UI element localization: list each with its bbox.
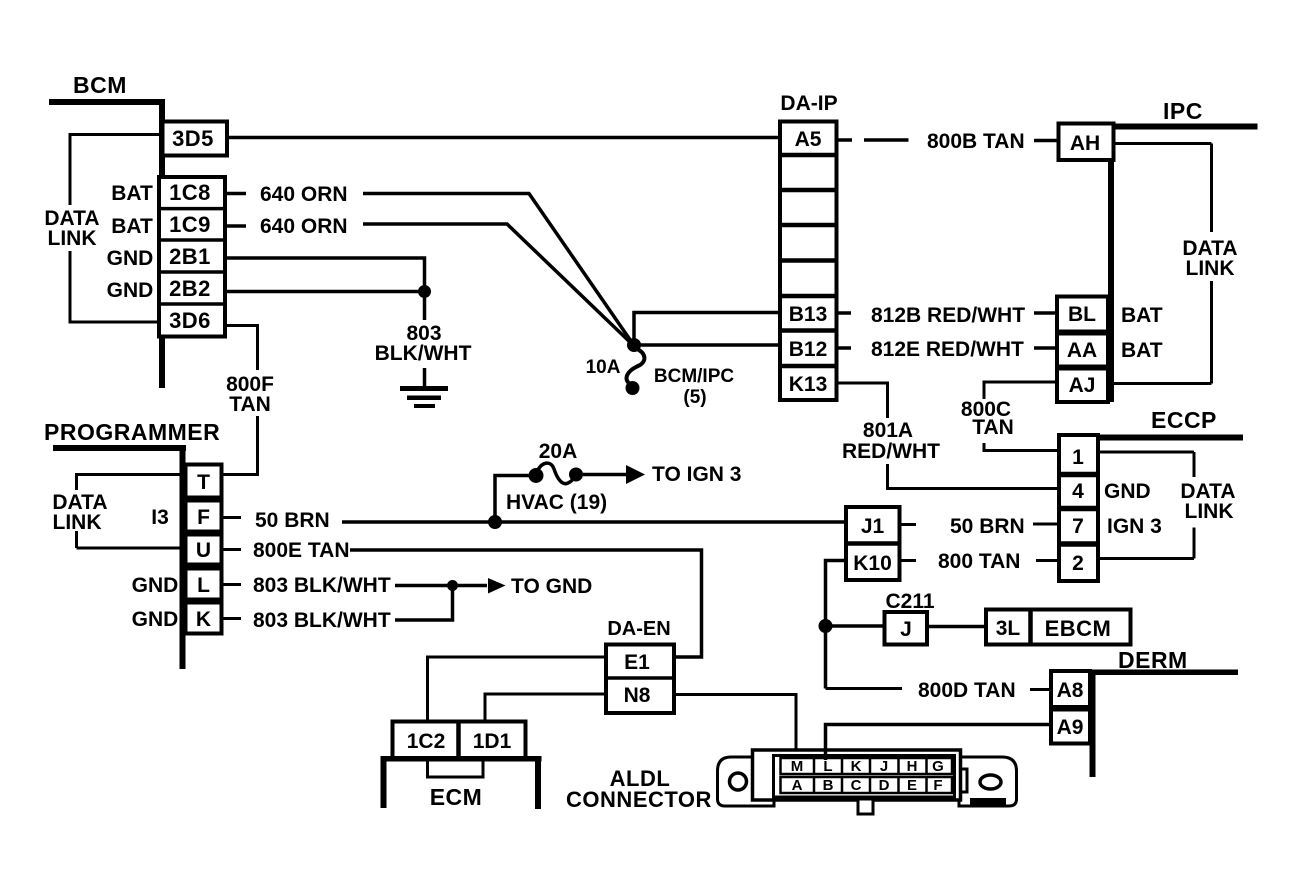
svg-text:2: 2: [1072, 552, 1084, 575]
junction: HVAC tap: [488, 515, 502, 529]
svg-text:G: G: [932, 758, 944, 775]
svg-text:A: A: [792, 777, 803, 794]
svg-text:A8: A8: [1057, 679, 1084, 702]
ALDL right ear: [959, 757, 1017, 806]
svg-text:640 ORN: 640 ORN: [260, 215, 348, 238]
ALDL body: [753, 750, 961, 800]
connector ECCP outline: [1059, 435, 1098, 581]
PROGRAMMER top rail: [53, 445, 186, 451]
wire: 1C8 stub: [227, 192, 246, 196]
connector C211 pin J: [885, 612, 928, 645]
svg-text:LINK: LINK: [53, 511, 102, 534]
svg-text:B: B: [823, 777, 834, 794]
wire: 2B2 to ground drop: [225, 290, 425, 294]
svg-text:ECM: ECM: [430, 784, 483, 810]
svg-text:TAN: TAN: [229, 393, 271, 416]
svg-text:J: J: [880, 758, 888, 775]
wire: A9 to ALDL pin L: [826, 725, 1052, 761]
svg-text:1C9: 1C9: [169, 212, 211, 237]
svg-text:BCM/IPC: BCM/IPC: [654, 366, 735, 387]
ALDL shade block: [970, 798, 1006, 807]
wire: dash to BL: [1034, 311, 1057, 315]
svg-text:1C8: 1C8: [169, 180, 211, 205]
svg-text:LINK: LINK: [1185, 500, 1234, 523]
svg-text:50 BRN: 50 BRN: [950, 515, 1025, 538]
svg-text:GND: GND: [1104, 480, 1151, 503]
wire: L stub: [221, 583, 241, 586]
svg-text:GND: GND: [107, 279, 154, 302]
svg-text:D: D: [879, 777, 890, 794]
svg-text:B13: B13: [789, 303, 828, 326]
wire: K10 stub: [900, 559, 917, 562]
wire: 800D TAN run: [826, 687, 903, 690]
DERM top rail: [1091, 670, 1239, 676]
wire: programmer data link bracket bottom: [77, 547, 187, 550]
pin 3D5 (BCM): [163, 122, 228, 156]
wire: splice to B12: [634, 343, 780, 347]
ground: [400, 386, 448, 391]
ALDL top pin row: [781, 758, 953, 774]
svg-text:C: C: [851, 777, 862, 794]
pin T: [186, 465, 222, 498]
ALDL left latch: [762, 769, 775, 792]
svg-text:DA-EN: DA-EN: [607, 618, 670, 640]
pin 7 (ECCP): [1059, 541, 1098, 547]
ECCP top rail: [1064, 435, 1243, 441]
connector J1/K10 outline: [846, 507, 900, 580]
wire: 640 ORN from 1C9 to splice: [363, 224, 633, 345]
svg-text:(5): (5): [683, 387, 706, 408]
connector ECM pins outline: [393, 722, 526, 759]
cell divider: [780, 258, 837, 263]
svg-text:E: E: [907, 777, 917, 794]
wire: ECCP data link bracket bottom: [1098, 557, 1194, 560]
wire: K stub: [221, 617, 241, 620]
svg-text:K10: K10: [853, 552, 892, 575]
svg-text:AA: AA: [1067, 339, 1097, 362]
connector DA-IP outline: [780, 122, 837, 401]
wire: BCM data link vertical (upper): [69, 133, 72, 205]
svg-text:640 ORN: 640 ORN: [260, 183, 348, 206]
svg-text:LINK: LINK: [48, 227, 97, 250]
ECM bracket: [381, 756, 542, 762]
fuse 20A HVAC: [529, 468, 544, 483]
svg-text:BLK/WHT: BLK/WHT: [375, 342, 472, 365]
pin A9 (DERM): [1051, 710, 1090, 744]
svg-text:803 BLK/WHT: 803 BLK/WHT: [253, 609, 391, 632]
wire: J1 stub: [900, 523, 917, 526]
svg-text:C211: C211: [885, 590, 934, 613]
pin J1: [846, 541, 900, 546]
svg-text:7: 7: [1072, 515, 1084, 538]
svg-text:4: 4: [1072, 480, 1084, 503]
wire: AJ to ECCP 1 (800C TAN upper): [984, 382, 1057, 399]
wire: L to gnd arrow: [395, 584, 453, 588]
svg-text:J: J: [900, 618, 912, 641]
svg-text:2B1: 2B1: [169, 244, 211, 269]
svg-text:A5: A5: [795, 128, 822, 151]
svg-text:AH: AH: [1070, 132, 1100, 155]
svg-text:1C2: 1C2: [407, 730, 446, 753]
svg-text:E1: E1: [624, 651, 650, 674]
wire: 800C TAN lower: [984, 443, 1059, 451]
pin BL (IPC): [1057, 297, 1108, 332]
svg-text:10A: 10A: [586, 357, 621, 378]
svg-text:20A: 20A: [539, 440, 578, 463]
pin 1 (ECCP): [1059, 472, 1098, 478]
svg-text:K13: K13: [789, 373, 828, 396]
wire: BCM data link vertical (lower): [69, 251, 72, 324]
wire: K to splice: [395, 586, 453, 621]
PROGRAMMER vertical rail: [180, 445, 186, 669]
svg-text:3D6: 3D6: [169, 308, 211, 333]
BCM top rail: [49, 99, 165, 105]
pin 1C8: [159, 207, 225, 211]
BCM vertical rail: [159, 99, 165, 388]
svg-text:800 TAN: 800 TAN: [938, 550, 1020, 573]
wire: 3D6 to programmer T (800F TAN): [225, 326, 258, 371]
svg-text:J1: J1: [861, 515, 885, 538]
svg-text:800E TAN: 800E TAN: [253, 539, 349, 562]
svg-text:TAN: TAN: [972, 416, 1014, 439]
pin U: [186, 535, 222, 565]
wire: splice to B13: [634, 313, 780, 347]
svg-text:BL: BL: [1068, 303, 1096, 326]
svg-text:ECCP: ECCP: [1151, 407, 1217, 433]
svg-text:800D TAN: 800D TAN: [918, 679, 1016, 702]
wire: IPC data link bracket bottom: [1114, 382, 1212, 385]
svg-text:HVAC (19): HVAC (19): [506, 491, 607, 514]
svg-text:K: K: [851, 758, 862, 775]
svg-text:812B RED/WHT: 812B RED/WHT: [871, 304, 1025, 327]
svg-text:TO GND: TO GND: [511, 575, 592, 598]
wire: E1 to 1C2: [428, 657, 607, 724]
wire: ECCP data link bracket top: [1098, 451, 1194, 454]
svg-text:I3: I3: [151, 506, 169, 529]
svg-text:50 BRN: 50 BRN: [255, 509, 330, 532]
connector DA-EN outline: [606, 645, 674, 714]
pin AJ (IPC): [1057, 369, 1108, 403]
svg-text:DERM: DERM: [1118, 647, 1188, 673]
wire: dash to A8: [1030, 688, 1051, 691]
wire: dash to AH: [1034, 139, 1058, 143]
pin B12: [780, 364, 837, 369]
wire: fuse to IGN3 arrow: [583, 473, 628, 477]
fuse 10A BCM/IPC: [627, 348, 645, 384]
ALDL left ear: [718, 757, 775, 806]
svg-text:RED/WHT: RED/WHT: [842, 440, 940, 463]
svg-text:IPC: IPC: [1163, 98, 1203, 124]
svg-text:F: F: [933, 777, 942, 794]
pin K: [186, 603, 222, 634]
svg-text:AJ: AJ: [1069, 374, 1096, 397]
junction: fuse splice: [627, 338, 641, 352]
wire: F stub: [221, 516, 241, 519]
pin 1C2: [456, 722, 461, 759]
ALDL inner shell: [774, 756, 955, 798]
svg-text:BAT: BAT: [1121, 304, 1163, 327]
wire: IPC data link vertical upper: [1210, 144, 1213, 233]
wire: 1C9 stub: [227, 224, 246, 228]
pin A8 (DERM): [1051, 671, 1090, 707]
wire: ECCP data link vertical lower: [1193, 528, 1196, 559]
cell divider: [780, 223, 837, 228]
svg-text:2B2: 2B2: [169, 276, 211, 301]
wire: drop to ground (upper): [423, 292, 427, 321]
IPC vertical rail: [1108, 124, 1114, 403]
junction: ground splice: [418, 285, 431, 298]
wire: IPC data link vertical lower: [1210, 281, 1213, 384]
svg-text:L: L: [197, 574, 210, 597]
svg-text:1: 1: [1072, 446, 1084, 469]
wire: drop to ground (lower): [423, 368, 427, 387]
wire: K10 to C211 drop: [826, 561, 847, 689]
DERM vertical rail: [1090, 670, 1096, 778]
pin L: [186, 569, 222, 600]
arrow TO GND: [488, 578, 506, 594]
wire: 800E TAN run to DA-EN E1: [350, 550, 702, 657]
svg-text:GND: GND: [132, 574, 179, 597]
pin AH (IPC): [1059, 124, 1114, 161]
svg-text:BCM: BCM: [73, 72, 127, 98]
svg-text:N8: N8: [624, 684, 651, 707]
ALDL right latch: [954, 769, 967, 792]
svg-text:GND: GND: [132, 608, 179, 631]
cell divider: [780, 188, 837, 193]
wire: dash to pin 7: [1033, 523, 1059, 526]
svg-text:T: T: [197, 471, 210, 494]
svg-text:B12: B12: [789, 338, 828, 361]
cell divider: [780, 294, 837, 299]
wire: ECCP data link vertical upper: [1193, 452, 1196, 477]
svg-text:IGN 3: IGN 3: [1107, 515, 1162, 538]
junction: C211 tap: [819, 619, 833, 633]
svg-text:GND: GND: [107, 247, 154, 270]
svg-text:TO IGN 3: TO IGN 3: [652, 463, 741, 486]
pin 2B1: [159, 270, 225, 274]
wire: IPC data link bracket top: [1114, 142, 1212, 145]
wire: A5 stub: [837, 138, 853, 142]
wire: K13 to ECCP 4 (801A RED/WHT): [837, 383, 888, 418]
junction: 803 splice: [447, 580, 458, 591]
wire: 1C2-1D1 loop: [428, 758, 484, 777]
pin 4 (ECCP): [1059, 506, 1098, 512]
svg-text:A9: A9: [1057, 716, 1084, 739]
pin F: [186, 501, 222, 532]
wire: data-link to 3D6: [70, 321, 163, 324]
pin 1C9: [159, 238, 225, 242]
svg-text:BAT: BAT: [111, 215, 153, 238]
svg-text:812E RED/WHT: 812E RED/WHT: [871, 338, 1024, 361]
wire: programmer data link bracket top: [77, 473, 187, 476]
wire: tap to C211 J: [826, 624, 886, 628]
svg-text:801A: 801A: [863, 419, 913, 442]
svg-text:F: F: [197, 506, 210, 529]
svg-text:3L: 3L: [996, 617, 1021, 640]
pin 3L: [1028, 610, 1033, 645]
wire: N8 to 1D1: [485, 694, 606, 724]
svg-text:803 BLK/WHT: 803 BLK/WHT: [253, 574, 391, 597]
IPC top rail: [1111, 124, 1258, 130]
svg-text:K: K: [196, 608, 211, 631]
svg-text:DA-IP: DA-IP: [780, 92, 837, 115]
wire: 801A lower segment: [888, 464, 1060, 489]
svg-text:LINK: LINK: [1186, 257, 1235, 280]
wire: 3D5 to DA-IP A5: [227, 136, 780, 140]
ALDL bottom pin row: [781, 777, 953, 793]
svg-text:800B TAN: 800B TAN: [927, 130, 1025, 153]
wire: HVAC riser: [495, 476, 529, 523]
wire: B13 stub: [837, 311, 852, 315]
svg-text:BAT: BAT: [111, 182, 153, 205]
pin B13: [780, 328, 837, 333]
wire: data-link to 3D5: [70, 133, 163, 136]
pin A5: [780, 153, 837, 158]
svg-text:L: L: [823, 758, 832, 775]
wire: 640 ORN from 1C8 to splice: [363, 194, 633, 345]
wire: N8 to ALDL pin M: [674, 695, 796, 761]
svg-text:PROGRAMMER: PROGRAMMER: [44, 419, 220, 445]
wire: C211 to EBCM 3L: [927, 625, 986, 629]
svg-text:M: M: [791, 758, 804, 775]
pin 2B2: [159, 302, 225, 306]
wire: 50 BRN main run: [342, 520, 846, 524]
svg-text:U: U: [196, 539, 211, 562]
svg-text:CONNECTOR: CONNECTOR: [566, 787, 712, 812]
ALDL bottom tab: [858, 799, 873, 814]
svg-text:EBCM: EBCM: [1045, 616, 1112, 641]
svg-text:BAT: BAT: [1121, 339, 1163, 362]
wire: dash to pin 2: [1036, 559, 1059, 562]
pin AA (IPC): [1057, 334, 1108, 367]
wire: 800F TAN lower segment: [221, 416, 258, 475]
arrow to IGN 3: [626, 465, 645, 484]
connector BCM pin stack outline: [159, 177, 225, 337]
wire: programmer data link vertical: [75, 473, 78, 490]
wire: dash to AA: [1034, 346, 1057, 350]
wire: B12 stub: [837, 346, 852, 350]
wire: 2B1 to ground drop: [225, 258, 425, 292]
svg-text:H: H: [907, 758, 918, 775]
pin E1: [606, 676, 674, 680]
svg-text:1D1: 1D1: [473, 730, 512, 753]
svg-text:3D5: 3D5: [172, 126, 214, 151]
wire: U stub: [221, 548, 241, 551]
connector EBCM outline: [986, 610, 1131, 645]
